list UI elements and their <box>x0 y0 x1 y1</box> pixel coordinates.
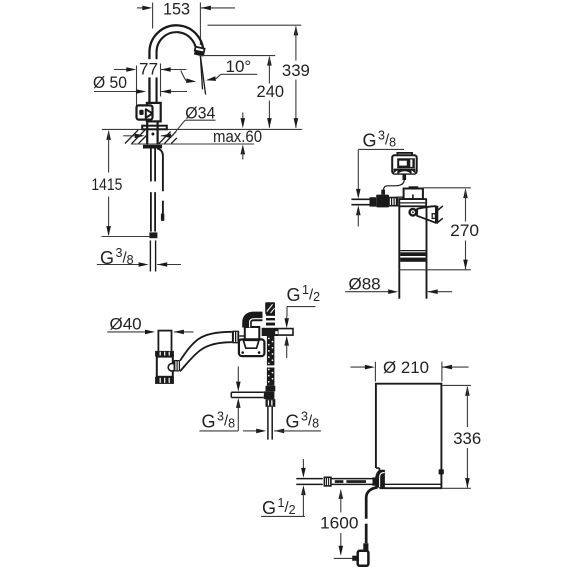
label G1/2 (boiler inlet) <box>302 459 304 471</box>
inlet pipe nut <box>324 477 331 486</box>
control box stem <box>403 174 407 180</box>
svg-text:10°: 10° <box>226 57 252 76</box>
dimension 1415 (hose length) <box>106 130 111 140</box>
supply hose <box>150 149 152 182</box>
bracket base plate <box>239 339 265 356</box>
boiler inlet elbow <box>375 470 385 488</box>
counter bottom surface line <box>131 143 254 145</box>
label G3/8 (right) <box>243 430 259 432</box>
hose connector nut <box>149 232 157 238</box>
wall break marks <box>437 206 443 211</box>
side outlet elbow <box>168 364 176 372</box>
boiler inlet pipe <box>296 478 323 480</box>
power plug <box>363 543 368 552</box>
control cable <box>157 149 163 192</box>
dimension 339 (overall height) <box>208 24 302 26</box>
clamp ring <box>408 208 417 217</box>
solenoid valve body <box>376 195 389 208</box>
bracket box <box>245 327 259 341</box>
counter hatching left <box>125 130 138 144</box>
connection pipe G3/8 <box>149 240 151 271</box>
G1/2 outlet pipe <box>279 329 293 336</box>
dimension 240 (outlet height) <box>201 55 276 57</box>
valve top collar <box>155 351 174 357</box>
ribbed fitting <box>397 197 405 207</box>
power cord <box>366 487 377 518</box>
faucet handle <box>137 105 153 119</box>
boiler base line <box>381 483 441 485</box>
cartridge bands <box>400 252 425 256</box>
svg-text:240: 240 <box>257 82 285 101</box>
tee union <box>264 391 275 399</box>
dimension 1600 (cord length) <box>339 489 344 499</box>
dimension max.60 (counter thickness) <box>242 112 244 120</box>
bracket elbow <box>247 316 263 327</box>
filter head cap <box>404 189 423 200</box>
control cable to valve <box>384 180 405 190</box>
svg-text:Ø 210: Ø 210 <box>383 358 429 377</box>
flexible hose <box>180 332 232 361</box>
svg-text:270: 270 <box>450 221 479 240</box>
cross union <box>262 328 279 336</box>
boiler outlet stub <box>439 469 444 474</box>
valve body cylinder <box>157 357 173 377</box>
coupler <box>389 198 397 206</box>
aerator tip <box>194 47 205 57</box>
braided hose <box>267 336 275 386</box>
G1/2 fitting body <box>266 314 275 326</box>
handle lever mark <box>146 109 153 118</box>
braid break <box>266 365 275 367</box>
handle sensor window <box>139 110 143 115</box>
faucet spout inner profile <box>157 32 197 103</box>
braided inlet hose <box>331 478 376 480</box>
svg-text:Ø88: Ø88 <box>349 275 381 294</box>
faucet body <box>147 103 161 122</box>
dimension 77 (body width) <box>137 59 159 77</box>
counter hatching right <box>159 132 171 144</box>
faucet spout outer profile <box>149 25 203 103</box>
svg-text:77: 77 <box>139 59 158 78</box>
tee side pipe <box>231 391 263 393</box>
filter cartridge cylinder <box>398 206 400 298</box>
braid texture <box>268 338 270 340</box>
G1/2 top nut <box>265 302 275 314</box>
small gap dimension <box>237 366 239 383</box>
filter head body <box>399 199 426 206</box>
counter top surface line <box>102 128 302 130</box>
boiler body <box>376 384 442 489</box>
inlet nut <box>370 197 377 206</box>
mounting nut <box>143 145 162 149</box>
dimension 270 (filter height) <box>423 187 471 189</box>
inlet pipe <box>351 198 369 200</box>
braid top nut <box>266 386 276 392</box>
svg-text:Ø34: Ø34 <box>185 103 215 122</box>
water stream reference lines <box>200 56 202 90</box>
svg-text:max.60: max.60 <box>213 128 262 146</box>
dimension 336 (boiler height) <box>443 384 471 386</box>
valve bottom collar <box>155 377 174 384</box>
svg-text:Ø40: Ø40 <box>110 314 142 333</box>
svg-text:153: 153 <box>163 0 190 19</box>
control box <box>397 153 412 156</box>
connection pipe down <box>267 407 269 440</box>
svg-text:Ø 50: Ø 50 <box>93 73 127 92</box>
valve neck tube <box>157 331 159 351</box>
svg-text:1415: 1415 <box>91 175 122 194</box>
svg-text:339: 339 <box>282 61 310 80</box>
svg-text:1600: 1600 <box>320 513 359 532</box>
tee bottom nut <box>266 399 276 407</box>
dimension 153 (spout projection) <box>137 7 144 9</box>
base flange <box>142 126 167 130</box>
hose nut <box>232 331 239 344</box>
mounting shank <box>146 121 148 144</box>
svg-text:336: 336 <box>453 429 481 448</box>
wall bracket arm <box>417 206 436 223</box>
